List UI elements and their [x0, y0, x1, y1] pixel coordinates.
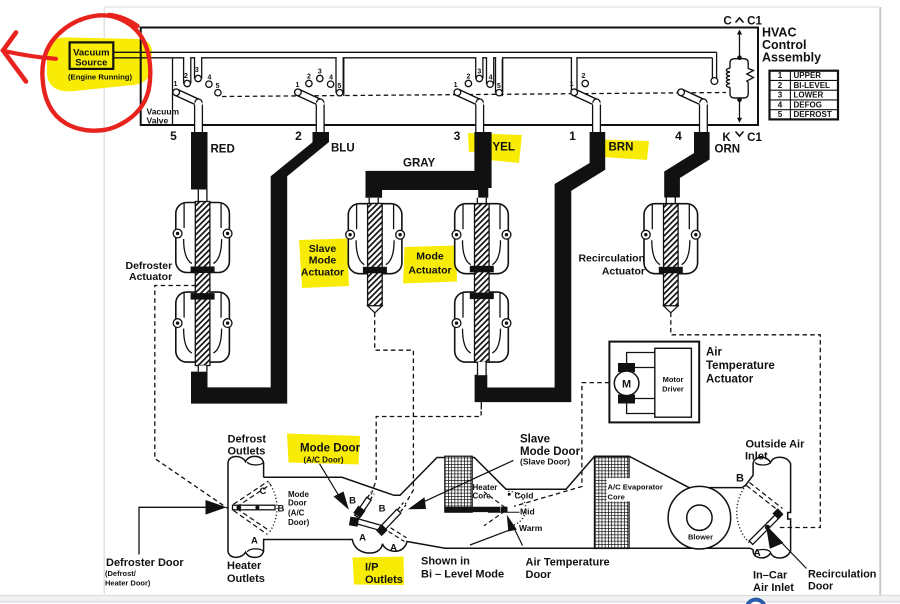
svg-text:Air: Air: [706, 347, 723, 359]
hose ORN: [664, 132, 709, 198]
mode actuator label: [408, 251, 451, 277]
recirculation actuator inlet tube: [666, 198, 675, 205]
mode door label highlighted: [300, 443, 361, 465]
highlight mode door label: [287, 434, 360, 465]
highlight mode actuator label: [403, 246, 457, 284]
svg-text:2: 2: [778, 81, 783, 90]
vacuum valve 4: [678, 89, 708, 132]
motor M: [614, 353, 655, 414]
svg-text:3: 3: [318, 69, 322, 76]
motor driver box: [655, 348, 692, 417]
svg-text:5: 5: [337, 83, 341, 90]
svg-text:GRAY: GRAY: [403, 158, 435, 170]
page panel border: [103, 7, 105, 594]
slave mode actuator: [346, 204, 405, 313]
mode position table: [770, 71, 839, 120]
svg-text:C: C: [723, 16, 731, 28]
recirculation door link dashed: [671, 313, 821, 528]
defrost outlet duct: [228, 456, 264, 557]
svg-text:3: 3: [477, 69, 481, 76]
air temperature actuator box: [609, 342, 699, 423]
highlight ip outlets label: [353, 557, 405, 586]
connector label C C1 top: [723, 16, 762, 28]
highlight over vacuum source: [47, 37, 152, 91]
svg-text:Recirculation: Recirculation: [578, 253, 645, 265]
manifold end port: [711, 78, 718, 85]
svg-text:Outlets: Outlets: [365, 574, 403, 586]
air temperature actuator label: [706, 347, 775, 386]
heater outlets label: [227, 560, 265, 585]
svg-text:Mode: Mode: [309, 255, 337, 267]
outside air inlet label: [745, 439, 805, 463]
svg-text:Actuator: Actuator: [706, 374, 754, 386]
in car lobe rims: [755, 462, 770, 465]
svg-text:LOWER: LOWER: [794, 91, 824, 100]
svg-text:B: B: [736, 473, 744, 485]
blower: [668, 486, 731, 549]
recirculation door arrow: [766, 525, 807, 569]
svg-text:1: 1: [454, 82, 458, 89]
svg-text:1: 1: [570, 81, 574, 88]
svg-text:Mode Door: Mode Door: [300, 443, 361, 455]
air temperature door label: [526, 557, 610, 582]
svg-text:Door: Door: [526, 569, 552, 581]
svg-text:RED: RED: [211, 144, 235, 156]
svg-text:Shown in: Shown in: [421, 556, 470, 568]
svg-text:Door: Door: [288, 499, 307, 508]
svg-text:Mid: Mid: [520, 506, 535, 516]
hose GRAY: [366, 171, 481, 198]
mode door label arrow: [320, 464, 349, 510]
svg-text:Actuator: Actuator: [408, 265, 451, 277]
HVAC control assembly box: [141, 28, 758, 126]
hose BLU: [191, 132, 329, 404]
slave mode door center: [376, 504, 406, 554]
ac evaporator core: [594, 457, 630, 549]
mode door center (bi-level): [349, 493, 384, 544]
svg-text:Temperature: Temperature: [706, 360, 775, 372]
svg-text:Defroster Door: Defroster Door: [106, 557, 184, 569]
ip outlets label: [365, 562, 403, 587]
connector label K C1 bottom: [722, 132, 762, 145]
svg-text:Warm: Warm: [519, 523, 543, 533]
slave mode door label: [520, 434, 581, 467]
blue logo arc peeking at bottom: [747, 600, 765, 604]
shown in bi-level label: [421, 556, 504, 581]
svg-text:2: 2: [295, 129, 302, 143]
vacuum valve 2: [295, 57, 344, 132]
svg-text:2: 2: [582, 73, 586, 80]
svg-text:(A/C: (A/C: [288, 509, 305, 518]
svg-text:BLU: BLU: [331, 143, 355, 155]
svg-text:Outlets: Outlets: [227, 573, 265, 585]
svg-text:Actuator: Actuator: [602, 266, 645, 278]
slave door link dashed: [375, 313, 414, 505]
svg-text:Defrost: Defrost: [228, 434, 267, 446]
HVAC control assembly label: [762, 26, 821, 65]
svg-text:B: B: [349, 496, 356, 507]
svg-text:3: 3: [454, 129, 461, 143]
svg-text:Slave: Slave: [520, 434, 550, 446]
recirculation door label: [808, 569, 876, 593]
svg-text:Inlet: Inlet: [745, 451, 768, 463]
svg-text:5: 5: [778, 110, 783, 119]
svg-text:4: 4: [778, 100, 783, 109]
recirculation actuator label: [578, 253, 645, 278]
svg-text:Motor: Motor: [663, 375, 684, 384]
svg-text:Door: Door: [808, 581, 834, 593]
svg-text:A: A: [359, 533, 366, 544]
highlight BRN: [602, 140, 650, 161]
svg-text:1: 1: [295, 82, 299, 89]
mode door small label: [288, 490, 310, 527]
recirculation door: [736, 473, 783, 560]
defroster door label: [105, 557, 184, 588]
svg-text:In–Car: In–Car: [753, 570, 788, 582]
defrost outlets label: [228, 434, 267, 458]
svg-text:Cold: Cold: [515, 490, 534, 500]
svg-text:A: A: [251, 536, 258, 547]
svg-text:B: B: [278, 504, 285, 515]
svg-text:2: 2: [466, 74, 470, 81]
hose YEL: [474, 132, 491, 198]
svg-text:C1: C1: [747, 132, 762, 144]
svg-text:A: A: [390, 543, 397, 554]
svg-text:Air Inlet: Air Inlet: [753, 582, 794, 594]
heater core: [445, 456, 472, 512]
svg-text:Driver: Driver: [662, 385, 684, 394]
svg-text:5: 5: [216, 83, 220, 90]
svg-text:2: 2: [307, 74, 311, 81]
defroster door link dashed: [155, 286, 230, 511]
svg-text:(Engine Running): (Engine Running): [68, 73, 132, 82]
svg-text:Source: Source: [75, 58, 107, 69]
valve cell dividers: [172, 58, 174, 124]
svg-text:B: B: [379, 504, 386, 515]
svg-text:Blower: Blower: [688, 533, 713, 542]
mode door link dashed: [371, 411, 482, 497]
svg-text:Mode: Mode: [416, 251, 444, 263]
valve linkage dashed line: [222, 93, 726, 97]
svg-text:3: 3: [778, 91, 783, 100]
hose RED: [191, 132, 208, 190]
temperature door link dashed: [514, 383, 609, 507]
defroster actuator label: [126, 260, 173, 283]
hose color labels: [211, 142, 741, 170]
svg-text:Slave: Slave: [309, 243, 337, 255]
svg-text:UPPER: UPPER: [794, 71, 822, 80]
svg-text:1: 1: [173, 81, 177, 88]
svg-text:ORN: ORN: [715, 144, 741, 156]
main air duct outline: [264, 456, 791, 558]
slave actuator inlet tube: [369, 198, 378, 204]
svg-text:4: 4: [207, 74, 211, 81]
hose BRN: [475, 132, 606, 402]
svg-text:I/P: I/P: [365, 562, 378, 574]
svg-text:5: 5: [170, 129, 177, 143]
recirculation actuator: [641, 204, 700, 313]
mode actuator: [452, 204, 511, 376]
svg-text:(Defrost/: (Defrost/: [105, 569, 137, 578]
svg-text:K: K: [722, 132, 731, 144]
svg-text:Door): Door): [288, 518, 310, 527]
air temperature door: [445, 490, 543, 533]
svg-text:4: 4: [675, 129, 682, 143]
svg-text:C: C: [260, 486, 267, 497]
svg-text:Heater Door): Heater Door): [105, 579, 151, 588]
svg-text:Outside Air: Outside Air: [746, 439, 806, 451]
slave mode actuator label: [301, 243, 344, 279]
svg-text:4: 4: [489, 74, 493, 81]
svg-text:C1: C1: [747, 16, 762, 28]
svg-text:Air Temperature: Air Temperature: [526, 557, 610, 569]
svg-text:(A/C Door): (A/C Door): [304, 456, 344, 465]
svg-text:1: 1: [778, 71, 783, 80]
defroster door (mode door) in defrost duct: [233, 481, 285, 547]
highlight YEL: [468, 133, 522, 163]
red pen circle around vacuum source: [42, 15, 150, 131]
svg-text:5: 5: [497, 83, 501, 90]
svg-text:(Slave Door): (Slave Door): [520, 457, 570, 467]
svg-text:M: M: [622, 378, 631, 390]
svg-text:A/C Evaporator: A/C Evaporator: [608, 483, 663, 492]
svg-text:Core: Core: [473, 492, 492, 501]
vacuum valve 1: [570, 57, 601, 132]
vacuum valve 5: [173, 57, 221, 132]
slave mode door pointer: [408, 460, 513, 509]
svg-text:Core: Core: [608, 493, 625, 502]
svg-text:DEFROST: DEFROST: [794, 110, 832, 119]
svg-text:A: A: [754, 548, 761, 559]
ac evaporator core label: [608, 483, 663, 502]
svg-text:Heater: Heater: [227, 560, 262, 572]
vacuum valve label: [147, 107, 180, 126]
defroster door pointer: [139, 500, 227, 555]
svg-text:Outlets: Outlets: [228, 446, 266, 458]
svg-text:1: 1: [569, 129, 576, 143]
svg-text:Actuator: Actuator: [129, 271, 172, 283]
svg-text:BRN: BRN: [609, 142, 634, 154]
vacuum manifold tube: [113, 51, 717, 53]
svg-text:Bi – Level Mode: Bi – Level Mode: [421, 569, 504, 581]
bottom toolbar strip: [0, 595, 900, 601]
valve number labels: [170, 129, 682, 143]
svg-text:Valve: Valve: [147, 116, 169, 126]
highlight slave mode actuator label: [299, 239, 349, 289]
mode actuator inlet tube: [477, 198, 486, 204]
svg-text:Actuator: Actuator: [301, 267, 344, 279]
svg-text:BI-LEVEL: BI-LEVEL: [794, 81, 831, 90]
warm outlet wall: [470, 530, 509, 545]
air temperature door arrow: [507, 515, 523, 546]
svg-text:Assembly: Assembly: [762, 51, 821, 65]
vacuum valve 3: [454, 57, 503, 132]
heater core label: [473, 483, 498, 501]
svg-text:3: 3: [195, 67, 199, 74]
svg-text:2: 2: [184, 73, 188, 80]
svg-text:DEFOG: DEFOG: [794, 100, 822, 109]
mode actuator rod tip below elbow: [480, 402, 482, 409]
svg-text:4: 4: [329, 74, 333, 81]
in car air inlet label: [753, 570, 794, 595]
svg-text:YEL: YEL: [493, 142, 515, 154]
red pen arrow: [3, 33, 56, 82]
svg-text:Recirculation: Recirculation: [808, 569, 876, 581]
control assembly coil-resistor component: [726, 30, 753, 123]
vacuum source box: [70, 42, 114, 69]
defroster actuator: [173, 190, 232, 372]
